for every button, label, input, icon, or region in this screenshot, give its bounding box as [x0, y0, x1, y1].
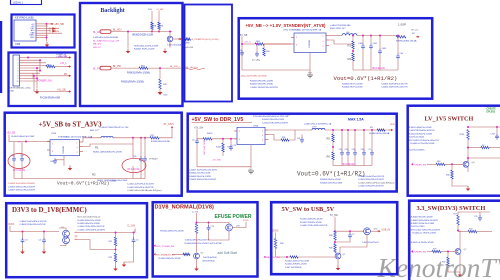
pulldown RL4 — [447, 252, 449, 258]
svg-text:R38: R38 — [329, 235, 332, 237]
svg-text:IR 0.90-0G: IR 0.90-0G — [342, 162, 355, 166]
mosfet QK — [364, 228, 371, 235]
svg-text:R39: R39 — [329, 248, 332, 250]
IC pin stubs — [47, 141, 50, 143]
ground divider — [115, 266, 117, 269]
IC U04 — [50, 140, 80, 156]
wire base right arrow — [173, 38, 179, 40]
connector CN body — [13, 55, 20, 86]
svg-text:R51: R51 — [109, 241, 112, 243]
svg-text:D3V3 to D_1V8(EMMC): D3V3 to D_1V8(EMMC) — [12, 206, 87, 214]
wire D3V3 down — [275, 233, 277, 239]
svg-text:IR 0.10-0G: IR 0.10-0G — [128, 168, 140, 171]
wire R407 down — [222, 152, 224, 156]
svg-text:+5V_S: +5V_S — [244, 42, 251, 44]
inductor — [83, 137, 101, 139]
svg-text:+5V_SB: +5V_SB — [239, 34, 248, 37]
wire row3 resistor R61 — [20, 62, 47, 64]
svg-text:GND: GND — [249, 169, 254, 171]
wire junction down to ground — [46, 24, 48, 42]
pulldown R40 — [451, 164, 453, 170]
D1V8 normal efuse box — [153, 202, 258, 276]
mosfet QJ — [226, 224, 233, 231]
svg-text:5V_SW to USB_5V: 5V_SW to USB_5V — [282, 206, 335, 213]
junction rail1 — [151, 31, 153, 33]
wire to gnd I — [115, 262, 117, 266]
resistor R70 vertical — [159, 68, 161, 79]
divider mid junction — [352, 49, 354, 53]
svg-text:C-B402 10xPx/4Pb-6.3/10YR: C-B402 10xPx/4Pb-6.3/10YR — [20, 221, 48, 223]
svg-text:C3: C3 — [25, 240, 27, 242]
svg-text:R_PWRBTN#(SCN_KL200): R_PWRBTN#(SCN_KL200) — [192, 39, 219, 41]
wire pin5 — [36, 32, 62, 34]
mid node — [115, 246, 117, 253]
svg-text:C-B403 10uFx4Pb-6.3/10YR: C-B403 10uFx4Pb-6.3/10YR — [381, 83, 408, 85]
wire QL emitter — [459, 254, 461, 272]
resistor R33 h — [467, 147, 469, 149]
svg-text:Vout=0.6V*(1+R1/R2): Vout=0.6V*(1+R1/R2) — [57, 180, 109, 186]
svg-text:KEYBOARD(Kx, (CN)): KEYBOARD(Kx, (CN)) — [10, 87, 31, 90]
svg-text:MB: xPx: MB: xPx — [93, 44, 102, 46]
svg-text:B34C: BPR: 10?: B34C: BPR: 10? — [330, 28, 346, 30]
svg-text:LED-IN 1: LED-IN 1 — [13, 2, 24, 5]
wire pullup right — [158, 11, 160, 22]
svg-text:+5V_SB: +5V_SB — [58, 56, 67, 58]
svg-text:UF_wire: UF_wire — [411, 30, 419, 32]
svg-text:T-0073-DxT3x01: T-0073-DxT3x01 — [409, 137, 425, 139]
lower rail BL_PW — [100, 66, 111, 70]
svg-text:add Soft Start: add Soft Start — [218, 251, 238, 255]
svg-text:R-0402+0.7RxLPb-1/16W: R-0402+0.7RxLPb-1/16W — [411, 143, 435, 145]
wire IC bottom to gnd — [63, 156, 65, 166]
input rail — [9, 135, 50, 142]
capacitor C03 — [240, 50, 244, 56]
svg-text:C-B407 SDRxJ/2Pb-10/16YR: C-B407 SDRxJ/2Pb-10/16YR — [8, 190, 36, 192]
svg-text:L-0804 TDN/2DN-2A0: L-0804 TDN/2DN-2A0 — [330, 24, 351, 27]
ground C5 — [123, 262, 125, 265]
wire R down to node — [196, 234, 198, 253]
net POWER_EN H — [411, 163, 413, 165]
arrow to border right — [178, 38, 180, 40]
svg-text:L-0805 DS/2-4.7UHxRPb-2.1A: L-0805 DS/2-4.7UHxRPb-2.1A — [304, 123, 332, 126]
wire R36 down to EN node — [276, 249, 285, 258]
svg-text:R40?L: R40?L — [207, 133, 214, 135]
resistor R61 — [46, 65, 55, 67]
svg-text:IR-0.90-0G: IR-0.90-0G — [372, 66, 385, 70]
svg-text:R-0402+0RxLPb-1/16W: R-0402+0RxLPb-1/16W — [78, 223, 100, 225]
divider R up — [115, 233, 117, 238]
svg-text:SY8088: SY8088 — [309, 39, 311, 48]
wire row6 — [20, 70, 41, 72]
svg-text:C40: C40 — [400, 53, 403, 55]
svg-text:R-B403 0RxPx-1/16W: R-B403 0RxPx-1/16W — [342, 83, 362, 85]
wire to base K — [298, 256, 335, 258]
transistor QL — [455, 249, 461, 255]
divider R5 — [332, 130, 334, 134]
svg-text:C0: C0 — [192, 140, 194, 142]
partial sheet border left edge — [0, 21, 2, 93]
svg-text:C?0?: C?0? — [491, 133, 496, 135]
wire cap C5 down — [124, 249, 134, 262]
USB 5V switch box — [271, 202, 397, 274]
input cap — [195, 139, 199, 145]
svg-text:MN: DV: MN: DV — [93, 47, 101, 49]
svg-text:R-0402-1x.7RxPb-1/10W: R-0402-1x.7RxPb-1/10W — [413, 233, 436, 235]
svg-text:B-0402-0RxLDN-3A: B-0402-0RxLDN-3A — [151, 140, 170, 143]
net MAIN_5V_EN — [264, 256, 266, 258]
junction pin1 — [46, 23, 48, 25]
wire row7 — [20, 72, 41, 74]
svg-text:R-B402 1DRxLPb-1/16W: R-B402 1DRxLPb-1/16W — [411, 223, 434, 225]
svg-text:EPLE03: EPLE03 — [487, 112, 496, 114]
svg-text:C-0402 1DRx/2Pb-10/10YR: C-0402 1DRx/2Pb-10/10YR — [358, 186, 384, 188]
svg-text:T-007S-Dx036R+: T-007S-Dx036R+ — [409, 150, 426, 152]
wire pin6 — [36, 34, 48, 36]
svg-text:R-B403 0RxLPb-1/16W: R-B403 0RxLPb-1/16W — [250, 80, 274, 82]
net +5V_SB arrow row1 — [68, 57, 70, 59]
wire main rail — [111, 31, 172, 33]
svg-text:1: 1 — [76, 231, 77, 233]
svg-text:C5: C5 — [136, 240, 138, 242]
wire to caps — [13, 142, 15, 158]
svg-text:SY8088AAC (SOT23-5) BPR: 1.0A: SY8088AAC (SOT23-5) BPR: 1.0A — [58, 136, 93, 139]
wire pin1 to +5V_SB — [36, 23, 50, 25]
mid junction — [332, 142, 334, 152]
svg-text:C05: C05 — [133, 156, 136, 158]
svg-text:BL_ADJ: BL_ADJ — [113, 29, 121, 32]
resistor R407 vertical — [222, 139, 224, 143]
wire row8 branch down — [34, 76, 68, 92]
svg-text:C-B402 100Fx/1Pb-10/10YR: C-B402 100Fx/1Pb-10/10YR — [381, 87, 408, 89]
wire POWER_EN — [427, 163, 436, 165]
svg-text:R0402_40R0530RxLPb-1/16W: R0402_40R0530RxLPb-1/16W — [93, 152, 122, 154]
svg-text:0?B-0402-0RxLDN?x0402-x1.2DTL-: 0?B-0402-0RxLDN?x0402-x1.2DTL-3/8** — [253, 116, 290, 118]
svg-text:C42: C42 — [345, 149, 348, 151]
svg-text:C-0603 10uFx2Pb-6.3/10YR: C-0603 10uFx2Pb-6.3/10YR — [358, 176, 385, 178]
cap C04 — [20, 156, 24, 162]
svg-text:B6R: 1.0**: B6R: 1.0** — [90, 130, 100, 132]
resistor RJ vertical — [195, 224, 197, 234]
resistor net1 — [185, 38, 191, 40]
junction pin7 — [46, 37, 48, 39]
divider R down — [114, 253, 116, 262]
net arrow D_1V8 — [134, 229, 136, 233]
svg-text:D1V8_NORMAL(D1V8): D1V8_NORMAL(D1V8) — [155, 205, 215, 211]
svg-text:BL/T-T-6Cx5(SOT23)-x0: BL/T-T-6Cx5(SOT23)-x0 — [78, 217, 101, 219]
svg-text:NO/C-0402 1DRxJ/Pb-10/16YR: NO/C-0402 1DRxJ/Pb-10/16YR — [411, 229, 441, 231]
wire pin4 — [36, 30, 50, 32]
wire right of IC — [269, 129, 313, 131]
svg-text:R-0402-0DRxLPb-1/10W: R-0402-0DRxLPb-1/10W — [409, 133, 432, 135]
wire to right border — [148, 67, 181, 69]
LV_1V5 switch box — [408, 106, 500, 196]
wire feedback I — [78, 240, 116, 250]
svg-text:R-B361/(RxPx-1/10W): R-B361/(RxPx-1/10W) — [121, 81, 144, 83]
svg-text:SUS_POWER_EN: SUS_POWER_EN — [156, 246, 175, 248]
svg-text:JP?(B40?: JP?(B40? — [149, 159, 159, 161]
cap CL — [479, 212, 481, 216]
cap C06 — [55, 159, 64, 161]
svg-text:+5V: +5V — [17, 142, 21, 144]
svg-text:+5V_L: +5V_L — [60, 63, 67, 65]
partial connector box top-left corner — [11, 0, 42, 5]
svg-text:BL_DA(PxNx7w 5rgx)_x4F: BL_DA(PxNx7w 5rgx)_x4F — [93, 39, 120, 42]
3.3_SW D3V3 switch box — [409, 201, 500, 280]
svg-text:LV_1V5 SWITCH: LV_1V5 SWITCH — [425, 116, 474, 123]
ground backlight right — [164, 49, 166, 52]
input rail I — [10, 226, 59, 232]
cap C43 — [354, 130, 356, 151]
node L — [457, 230, 459, 232]
ground G — [69, 166, 71, 169]
svg-text:C?0: C?0 — [474, 216, 477, 218]
transistor QJ2 — [194, 253, 200, 259]
wire POWER_EN L — [427, 251, 432, 253]
svg-text:BL_PW: BL_PW — [93, 69, 102, 71]
svg-text:C?: C? — [352, 234, 354, 236]
net SW_STANDBY_5V — [154, 253, 156, 255]
svg-text:R-B402+RxLPb-1/10W: R-B402+RxLPb-1/10W — [189, 173, 210, 175]
output rail junctions — [352, 35, 354, 37]
svg-text:+5V_SB: +5V_SB — [54, 22, 64, 26]
resistor R06 v — [467, 130, 469, 140]
svg-text:2: 2 — [76, 238, 77, 240]
svg-text:R-407: R-407 — [216, 147, 221, 149]
junction rail2 — [158, 31, 160, 33]
svg-text:USB_5V: USB_5V — [382, 230, 391, 232]
svg-text:0R0070T340: 0R0070T340 — [203, 260, 216, 262]
svg-text:R40: R40 — [446, 175, 449, 177]
ground K — [337, 266, 339, 269]
IC U08 — [237, 127, 265, 144]
svg-text:+5V_SB to ST_A3V3: +5V_SB to ST_A3V3 — [39, 121, 103, 129]
wire RL4 down — [448, 266, 460, 272]
junction H rail left — [467, 126, 469, 128]
net SUS_POWER_EN — [154, 245, 156, 247]
svg-text:R5: R5 — [327, 137, 331, 141]
inductor G2 — [312, 128, 325, 130]
svg-text:D_1V8: D_1V8 — [128, 225, 136, 228]
svg-text:C-0402-TDRJ/2Pb-2P-0 L?04: C-0402-TDRJ/2Pb-2P-0 L?04 — [100, 127, 130, 129]
svg-text:C4: C4 — [39, 240, 41, 242]
IC pin stubs — [234, 130, 237, 132]
svg-text:1.0SP: 1.0SP — [398, 23, 406, 27]
svg-text:T-007 2x12R0500: T-007 2x12R0500 — [285, 267, 302, 269]
svg-text:C-B40: C-B40 — [110, 181, 117, 183]
D_1V8 EMMC ldo box — [6, 203, 147, 277]
svg-text:+5V_SB: +5V_SB — [7, 132, 16, 134]
svg-text:(CT_A6-): (CT_A6-) — [252, 59, 261, 62]
ground capC4 — [43, 249, 45, 252]
svg-text:R2: R2 — [348, 57, 352, 61]
wire mosfet out — [232, 222, 246, 228]
ground keypad — [46, 42, 48, 45]
svg-text:3.3_SW(D3V3) SWITCH: 3.3_SW(D3V3) SWITCH — [417, 205, 486, 212]
svg-text:R-B403 0RxLPb-1/10W: R-B403 0RxLPb-1/10W — [189, 176, 211, 178]
svg-text:DDR_CPU_EN: DDR_CPU_EN — [203, 140, 205, 155]
wire QK2 emitter to gnd — [337, 259, 339, 266]
inductor L00 — [342, 34, 357, 36]
svg-text:C41: C41 — [297, 138, 300, 140]
svg-text:C-0402 SDRx/2Pb-10x16YR: C-0402 SDRx/2Pb-10x16YR — [127, 187, 154, 189]
svg-text:KEYPAD-L (KB): KEYPAD-L (KB) — [15, 15, 34, 19]
svg-text:1: 1 — [18, 57, 19, 59]
svg-text:R??: R?? — [433, 248, 436, 250]
wire QK2 collector — [340, 247, 345, 254]
svg-text:POWER_ON: POWER_ON — [37, 79, 52, 82]
resistor R400 — [352, 61, 354, 70]
svg-text:C-B402 SDRxJ/0Pb-10/16YR: C-B402 SDRxJ/0Pb-10/16YR — [411, 220, 439, 222]
svg-text:C-0402+0uFx2Pb-6.3/x10YR: C-0402+0uFx2Pb-6.3/x10YR — [127, 184, 154, 186]
svg-text:POWER_EN: POWER_EN — [414, 164, 427, 166]
wire SW to base — [172, 253, 189, 255]
power button net box — [185, 5, 233, 102]
caps C05 C0x — [140, 138, 142, 157]
svg-text:C-0402+1DRxLx2Pb-0x (add JEP)(: C-0402+1DRxLx2Pb-0x (add JEP)(xxx) — [358, 182, 395, 184]
svg-text:C-B402 SDRxJ/2Pb-10/16YR: C-B402 SDRxJ/2Pb-10/16YR — [8, 186, 36, 188]
main rail K — [334, 228, 336, 231]
wire mosfet top — [228, 223, 230, 225]
net arrow row4 — [68, 66, 70, 68]
wire inductor out — [113, 137, 133, 139]
divider R1 — [352, 36, 354, 42]
net arrow ST_A3V3 — [132, 137, 134, 139]
svg-text:C-B407 10xPx/2Pb-10V-10YR: C-B407 10xPx/2Pb-10V-10YR — [189, 169, 217, 171]
svg-text:D1V8: D1V8 — [243, 220, 249, 222]
resistor R62 — [139, 67, 148, 69]
svg-text:R-0402-0DRxLPb-1/10W: R-0402-0DRxLPb-1/10W — [78, 220, 101, 222]
svg-text:C-B407 SDRJ/CPb-10/16YR: C-B407 SDRJ/CPb-10/16YR — [250, 87, 278, 89]
svg-text:C41: C41 — [339, 149, 342, 151]
svg-text:1-0404-10xPx/4Rx-10V-B5B: 1-0404-10xPx/4Rx-10V-B5B — [239, 75, 267, 77]
net +5V_SB arrow — [50, 23, 52, 25]
connector box KEYPAD (KB) — [12, 15, 75, 48]
wire QJ2 emitter — [196, 259, 198, 266]
svg-text:R-0402-0DRxPb-1/10W: R-0402-0DRxPb-1/10W — [159, 258, 181, 260]
highlight ellipse left — [8, 154, 30, 169]
svg-text:5V_SW: 5V_SW — [330, 215, 339, 217]
wire feedback — [329, 40, 353, 44]
svg-text:U?04: U?04 — [51, 133, 57, 135]
svg-text:D3V3: D3V3 — [9, 224, 15, 226]
svg-text:C402: C402 — [382, 48, 387, 50]
svg-text:C?0: C?0 — [233, 145, 236, 147]
resistor R9 — [158, 22, 160, 30]
arrow output right — [416, 36, 418, 38]
bus verticals — [39, 60, 41, 70]
svg-text:BL_ADJ: BL_ADJ — [93, 31, 101, 34]
diode D2 pair — [50, 30, 59, 32]
svg-text:+5V_SW: +5V_SW — [212, 160, 222, 162]
svg-text:C-0402+TDRxJ/2Pb-10/16YR: C-0402+TDRxJ/2Pb-10/16YR — [78, 229, 106, 231]
transistor QK2 — [335, 253, 341, 259]
svg-text:R-0402-70RxPb-1/10W: R-0402-70RxPb-1/10W — [285, 264, 307, 266]
wire IC bottom — [250, 145, 252, 168]
svg-text:R6: R6 — [327, 155, 331, 159]
svg-text:10: 10 — [17, 81, 19, 83]
cap C0b — [230, 139, 232, 146]
svg-text:+5V_NB --> +1.0V_STANDBY(NT_AT: +5V_NB --> +1.0V_STANDBY(NT_ATV8) — [246, 23, 327, 28]
svg-text:R-B433 (RxPx-1/10W): R-B433 (RxPx-1/10W) — [127, 72, 150, 74]
wire row8 — [20, 75, 69, 77]
svg-text:R-C08-0RxPx-0N9: R-C08-0RxPx-0N9 — [40, 97, 61, 100]
svg-text:R-B402 0RxLPb-1/16W: R-B402 0RxLPb-1/16W — [250, 84, 274, 86]
svg-text:D_1V8: D_1V8 — [192, 211, 199, 213]
ground capC3 — [22, 249, 24, 252]
svg-text:R-0402-70RxPb-1/10W: R-0402-70RxPb-1/10W — [300, 222, 322, 224]
svg-text:GND: GND — [30, 37, 35, 39]
svg-text:SY8088: SY8088 — [63, 145, 65, 154]
input wire — [197, 129, 203, 139]
net arrow USB_5V — [370, 230, 378, 232]
out rail G2 — [325, 129, 390, 131]
svg-text:C-B402 1DRx/2Pb-10/16YR: C-B402 1DRx/2Pb-10/16YR — [20, 224, 46, 226]
resistor REN — [290, 256, 298, 258]
diode D1 pair — [50, 28, 59, 30]
wire R06 down to Q4 — [467, 140, 469, 162]
wire rail to mosfet — [335, 230, 364, 232]
svg-text:R1: R1 — [348, 44, 352, 48]
cap CK — [349, 231, 351, 233]
wire row4 — [20, 65, 47, 66]
junction row1 — [27, 57, 29, 59]
ST_A3V3 regulator box — [5, 113, 182, 196]
wire row1 to +5V_SB — [20, 57, 69, 59]
junction row8 — [33, 75, 35, 77]
cap C400 — [362, 36, 364, 45]
cap C41m — [301, 135, 303, 139]
svg-text:CREATE: CREATE — [487, 107, 497, 110]
pin marks — [75, 233, 78, 240]
svg-text:U?01 SY8088AAC (SOT23-5) BP: U?01 SY8088AAC (SOT23-5) BPR: 1A — [283, 29, 322, 32]
LED D50 — [159, 89, 161, 92]
svg-text:IR 0.10-0G: IR 0.10-0G — [13, 169, 25, 172]
svg-text:+5V_SW to DDR_1V5: +5V_SW to DDR_1V5 — [192, 117, 244, 123]
transistor Q1 — [167, 36, 173, 42]
wire out to resistor — [397, 36, 399, 37]
svg-text:T-0402-0DRxLPb-10/16YR: T-0402-0DRxLPb-10/16YR — [185, 240, 210, 242]
wire IC bottom pin to ground — [309, 53, 311, 76]
svg-text:R-0402+0DRxPb-1/10W: R-0402+0DRxPb-1/10W — [300, 219, 323, 221]
cap C401 — [370, 36, 372, 45]
svg-text:R2: R2 — [92, 173, 96, 177]
connector CN6 body — [14, 20, 36, 41]
wire row5 to PC — [20, 67, 41, 69]
svg-text:R-0402+0.7RxPb-1/10W: R-0402+0.7RxPb-1/10W — [411, 242, 434, 244]
wire down to ground — [127, 32, 129, 49]
svg-text:DDR: DDR — [390, 124, 395, 126]
resistor R8 — [151, 22, 153, 30]
svg-text:xPBx: xPBx — [185, 43, 190, 45]
svg-text:SW_STANDBY_5V: SW_STANDBY_5V — [156, 253, 175, 256]
wire emitter to gnd — [169, 42, 171, 48]
resistor RL3 — [432, 250, 441, 252]
svg-text:PC: PC — [64, 74, 68, 76]
resistor ROUT — [396, 36, 406, 38]
svg-text:CN6: CN6 — [15, 42, 21, 46]
wire to QL base — [441, 251, 455, 253]
top rail H — [468, 126, 500, 128]
resistor R16 — [436, 163, 445, 165]
divider R6 — [332, 152, 334, 160]
wire QL collector — [459, 231, 461, 250]
feedback divider R1 — [83, 144, 133, 147]
resistor R36 — [274, 239, 276, 249]
IC pin stubs — [291, 37, 294, 39]
svg-text:MAX 1.5A: MAX 1.5A — [348, 118, 364, 122]
cap C402 — [379, 36, 381, 50]
svg-text:C-0402-TDRxJ/2Pb-10/16YR: C-0402-TDRxJ/2Pb-10/16YR — [262, 122, 288, 124]
